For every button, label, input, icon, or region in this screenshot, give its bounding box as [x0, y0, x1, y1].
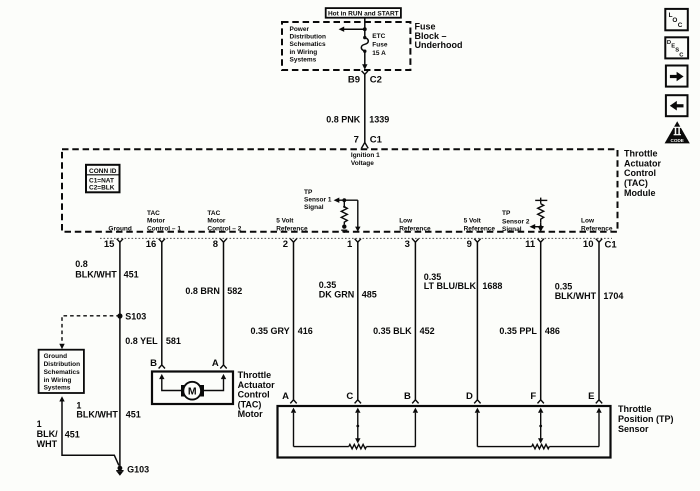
svg-text:D: D [466, 391, 473, 402]
wire pin 11 to TP sensor pin F [499, 242, 560, 399]
svg-text:0.35 GRY: 0.35 GRY [251, 326, 290, 336]
svg-text:B9: B9 [348, 75, 360, 86]
svg-text:Sensor 1: Sensor 1 [304, 197, 332, 204]
svg-text:451: 451 [126, 410, 141, 420]
svg-text:1688: 1688 [482, 281, 502, 291]
svg-text:C1=NAT: C1=NAT [89, 177, 114, 184]
wire with up arrow inside motor box (B side) [159, 374, 181, 391]
svg-text:Reference: Reference [399, 225, 431, 232]
svg-text:Control: Control [624, 168, 656, 178]
svg-text:Sensor 2: Sensor 2 [502, 218, 530, 225]
svg-text:0.35 PPL: 0.35 PPL [499, 326, 537, 336]
svg-text:C: C [346, 391, 353, 402]
svg-text:Signal: Signal [502, 226, 522, 233]
svg-text:C1: C1 [605, 239, 618, 250]
svg-text:Systems: Systems [44, 385, 71, 392]
connector pin A at TP sensor [282, 391, 297, 404]
pin label TAC Motor Control - 2 [207, 210, 241, 233]
svg-text:451: 451 [124, 269, 139, 279]
connector pin F at TP sensor [530, 391, 544, 404]
svg-text:BLK/WHT: BLK/WHT [76, 410, 118, 420]
svg-text:O: O [672, 17, 677, 24]
power feed label box "Hot in RUN and START" [326, 8, 401, 18]
connector pin B at TP sensor [404, 391, 419, 404]
CONN ID table [86, 165, 120, 193]
svg-text:F: F [530, 391, 536, 402]
connector pin A at TAC motor [212, 358, 227, 369]
svg-text:B: B [150, 358, 157, 369]
wire riser pin E with up arrow [596, 408, 601, 447]
potentiometer R1 (TP sensor 1) [294, 444, 416, 448]
fuse block dashed box [282, 22, 410, 70]
svg-text:Low: Low [581, 218, 595, 225]
connector C2 pin B9 (Y symbol) [348, 71, 382, 86]
icon back arrow button [666, 95, 688, 116]
pin label 5 Volt Reference (pin 2) [276, 218, 308, 233]
wire pin 11 internal with down arrow [538, 222, 543, 232]
icon II CODE emissions triangle [665, 121, 690, 143]
svg-text:0.35: 0.35 [555, 281, 573, 291]
ground distribution schematics box [39, 350, 84, 393]
pin label Low Reference (pin 3) [399, 218, 431, 233]
svg-text:Motor: Motor [238, 409, 263, 419]
wire pin 1 internal with down arrow [355, 200, 360, 232]
fuse ETC Fuse 15 A [361, 33, 388, 57]
svg-text:1: 1 [37, 419, 42, 429]
svg-text:7: 7 [354, 135, 359, 146]
svg-text:TP: TP [304, 189, 313, 196]
svg-text:Underhood: Underhood [415, 40, 463, 50]
connector pin 8 (Y symbol) [213, 239, 227, 250]
wire pin 9 to TP sensor pin D [424, 242, 503, 399]
svg-text:582: 582 [227, 286, 242, 296]
wire from ground box down to G103 with up arrow [59, 396, 119, 465]
TAC module dashed box [62, 149, 618, 232]
internal wire with left arrow (TP sensor 2 signal) [530, 224, 544, 229]
svg-text:Schematics: Schematics [290, 41, 327, 48]
svg-text:Signal: Signal [304, 204, 324, 211]
node: junction dot on TP1 line [342, 198, 346, 202]
svg-text:Motor: Motor [207, 218, 226, 225]
svg-text:Distribution: Distribution [44, 361, 80, 368]
svg-text:Fuse: Fuse [372, 42, 388, 49]
svg-text:B: B [404, 391, 411, 402]
svg-text:WHT: WHT [37, 439, 58, 449]
dashed reference wire from S103 to ground distribution box [59, 316, 120, 349]
wire with up arrow inside motor box (A side) [204, 374, 226, 391]
icon LOC button [665, 9, 688, 30]
svg-text:TP: TP [502, 210, 511, 217]
svg-text:0.35: 0.35 [319, 280, 337, 290]
wiper arm pin C (up arrow, stem, junction dot, down arrow to R1) [355, 408, 360, 444]
connector C1 pin 7 (inverted Y into module) [354, 135, 383, 149]
TP sensor 1 signal label [304, 189, 332, 211]
svg-text:485: 485 [362, 290, 377, 300]
svg-text:Voltage: Voltage [351, 160, 374, 167]
wire pin 15 to G103 [119, 242, 121, 466]
wire pin 3 to TP sensor pin B [373, 242, 435, 399]
svg-text:CODE: CODE [671, 138, 684, 143]
wiper arm pin F (up arrow, stem, junction dot, down arrow to R2) [538, 408, 543, 444]
svg-text:581: 581 [166, 336, 181, 346]
wire pin 1 to TP sensor pin C [319, 242, 377, 399]
svg-text:BLK/: BLK/ [37, 429, 58, 439]
svg-text:0.8 BRN: 0.8 BRN [185, 286, 220, 296]
svg-text:BLK/WHT: BLK/WHT [555, 291, 597, 301]
svg-text:5 Volt: 5 Volt [464, 218, 482, 225]
svg-text:452: 452 [420, 326, 435, 336]
svg-text:(TAC): (TAC) [238, 399, 262, 409]
connector row dotted line under module [100, 237, 612, 239]
svg-text:C2=BLK: C2=BLK [89, 185, 115, 192]
svg-text:10: 10 [583, 239, 594, 250]
connector pin B at TAC motor [150, 358, 165, 369]
svg-text:Distribution: Distribution [290, 34, 326, 41]
node: junction dot at ignition feed [363, 27, 367, 31]
TP sensor 2 signal label [502, 210, 530, 233]
pin label TAC Motor Control - 1 [147, 210, 181, 233]
icon forward arrow button [666, 66, 688, 87]
svg-text:C: C [678, 22, 683, 29]
svg-text:Position (TP): Position (TP) [618, 414, 674, 424]
svg-text:TAC: TAC [207, 210, 220, 217]
power distribution reference text [290, 26, 327, 64]
svg-text:5 Volt: 5 Volt [276, 218, 294, 225]
svg-text:0.8 YEL: 0.8 YEL [125, 336, 158, 346]
net label Ignition 1 Voltage [351, 152, 380, 167]
connector pin 3 (Y symbol) [405, 239, 419, 250]
motor M1 (TAC motor symbol) [181, 382, 204, 400]
svg-text:15: 15 [104, 239, 115, 250]
TP sensor caption [618, 404, 674, 434]
connector pin 11 (Y symbol) [525, 239, 544, 250]
svg-text:0.8: 0.8 [75, 259, 88, 269]
svg-text:Power: Power [290, 26, 310, 33]
internal wire with left arrow (TP sensor 1 signal) [334, 198, 358, 203]
svg-text:C2: C2 [370, 75, 382, 86]
svg-text:DK GRN: DK GRN [319, 290, 355, 300]
svg-text:15 A: 15 A [372, 50, 386, 57]
potentiometer R2 (TP sensor 2) [477, 444, 599, 448]
wire riser pin D with up arrow [475, 408, 480, 447]
svg-text:Ignition 1: Ignition 1 [351, 152, 380, 159]
svg-text:Systems: Systems [290, 57, 317, 64]
svg-text:11: 11 [525, 239, 536, 250]
pin label 5 Volt Reference (pin 9) [464, 218, 496, 233]
svg-text:9: 9 [467, 239, 472, 250]
TAC module caption [624, 149, 661, 198]
svg-text:Schematics: Schematics [44, 369, 81, 376]
svg-text:Control – 1: Control – 1 [147, 225, 181, 232]
fuse block caption [415, 22, 463, 51]
TP sensor box [278, 406, 611, 458]
svg-text:in Wiring: in Wiring [290, 49, 318, 56]
svg-text:1339: 1339 [369, 115, 389, 125]
connector pin 16 (Y symbol) [146, 239, 165, 250]
wire pin 2 to TP sensor pin A [251, 242, 313, 399]
svg-text:Throttle: Throttle [624, 149, 658, 159]
node S103 splice [117, 312, 146, 322]
svg-text:Motor: Motor [147, 218, 166, 225]
wire pin 8 to TAC motor pin A [185, 242, 242, 365]
svg-text:A: A [282, 391, 289, 402]
connector pin 2 (Y symbol) [283, 239, 297, 250]
svg-text:(TAC): (TAC) [624, 178, 648, 188]
connector pin 15 (Y symbol) [104, 239, 123, 250]
svg-text:2: 2 [283, 239, 288, 250]
svg-text:16: 16 [146, 239, 157, 250]
svg-text:Sensor: Sensor [618, 424, 649, 434]
svg-text:Reference: Reference [276, 225, 308, 232]
connector pin C at TP sensor [346, 391, 361, 404]
pin label Low Reference (pin 10) [581, 218, 613, 233]
TAC motor caption [238, 370, 275, 419]
svg-text:0.8 PNK: 0.8 PNK [326, 115, 361, 125]
svg-text:in Wiring: in Wiring [44, 377, 72, 384]
wire label 1 BLK/WHT 451 (main) [76, 400, 140, 419]
connector pin 9 (Y symbol) [467, 239, 481, 250]
svg-text:Reference: Reference [464, 225, 496, 232]
svg-text:A: A [212, 358, 219, 369]
svg-text:G103: G103 [127, 464, 149, 474]
wire label 1 BLK/ WHT 451 (left branch) [37, 419, 80, 449]
svg-text:416: 416 [298, 326, 313, 336]
wire from Hot box down into fuse block [364, 18, 366, 38]
svg-text:Control: Control [238, 390, 270, 400]
svg-text:Reference: Reference [581, 225, 613, 232]
svg-text:Throttle: Throttle [238, 370, 272, 380]
wire 0.8 PNK 1339 [326, 79, 389, 142]
svg-text:0.35 BLK: 0.35 BLK [373, 326, 412, 336]
svg-text:C1: C1 [370, 135, 383, 146]
wire with left arrow to power distribution [339, 27, 365, 32]
svg-text:Actuator: Actuator [238, 380, 275, 390]
svg-text:LT BLU/BLK: LT BLU/BLK [424, 281, 477, 291]
svg-text:3: 3 [405, 239, 410, 250]
svg-text:Throttle: Throttle [618, 404, 652, 414]
svg-text:Ground: Ground [108, 225, 131, 232]
svg-text:M: M [188, 386, 197, 398]
ground G103 [116, 464, 149, 475]
svg-text:Actuator: Actuator [624, 158, 661, 168]
connector pin E at TP sensor [588, 391, 602, 404]
resistor (TP sensor 2 pull-up) with top bar [535, 198, 547, 223]
wire riser pin B with up arrow [413, 408, 418, 447]
svg-text:TAC: TAC [147, 210, 160, 217]
svg-text:Control – 2: Control – 2 [207, 225, 241, 232]
svg-text:8: 8 [213, 239, 218, 250]
wire label 0.8 BLK/WHT 451 [75, 259, 138, 279]
svg-text:Module: Module [624, 188, 656, 198]
svg-text:ETC: ETC [372, 33, 385, 40]
svg-text:486: 486 [545, 326, 560, 336]
svg-text:1: 1 [347, 239, 353, 250]
svg-text:Low: Low [399, 218, 413, 225]
connector pin 10 (Y symbol) and C1 [583, 239, 617, 251]
wire from fuse to box bottom with down arrow [362, 51, 367, 69]
icon DESC button [665, 37, 688, 58]
svg-text:1704: 1704 [603, 291, 623, 301]
connector pin 1 (Y symbol) [347, 239, 361, 250]
svg-text:CONN ID: CONN ID [89, 168, 117, 175]
wire riser pin A with up arrow [291, 408, 296, 447]
wire pin 16 to TAC motor pin B [125, 242, 181, 365]
TAC motor box [152, 372, 233, 405]
connector pin D at TP sensor [466, 391, 481, 404]
svg-text:Ground: Ground [44, 353, 67, 360]
resistor (TP sensor 1 pull-up) [341, 200, 347, 233]
svg-text:Hot in RUN and START: Hot in RUN and START [328, 10, 399, 17]
svg-text:451: 451 [65, 430, 80, 440]
svg-text:S103: S103 [125, 312, 146, 322]
wire pin 10 to TP sensor pin E [555, 242, 624, 399]
svg-text:E: E [588, 391, 594, 402]
svg-text:BLK/WHT: BLK/WHT [75, 269, 117, 279]
